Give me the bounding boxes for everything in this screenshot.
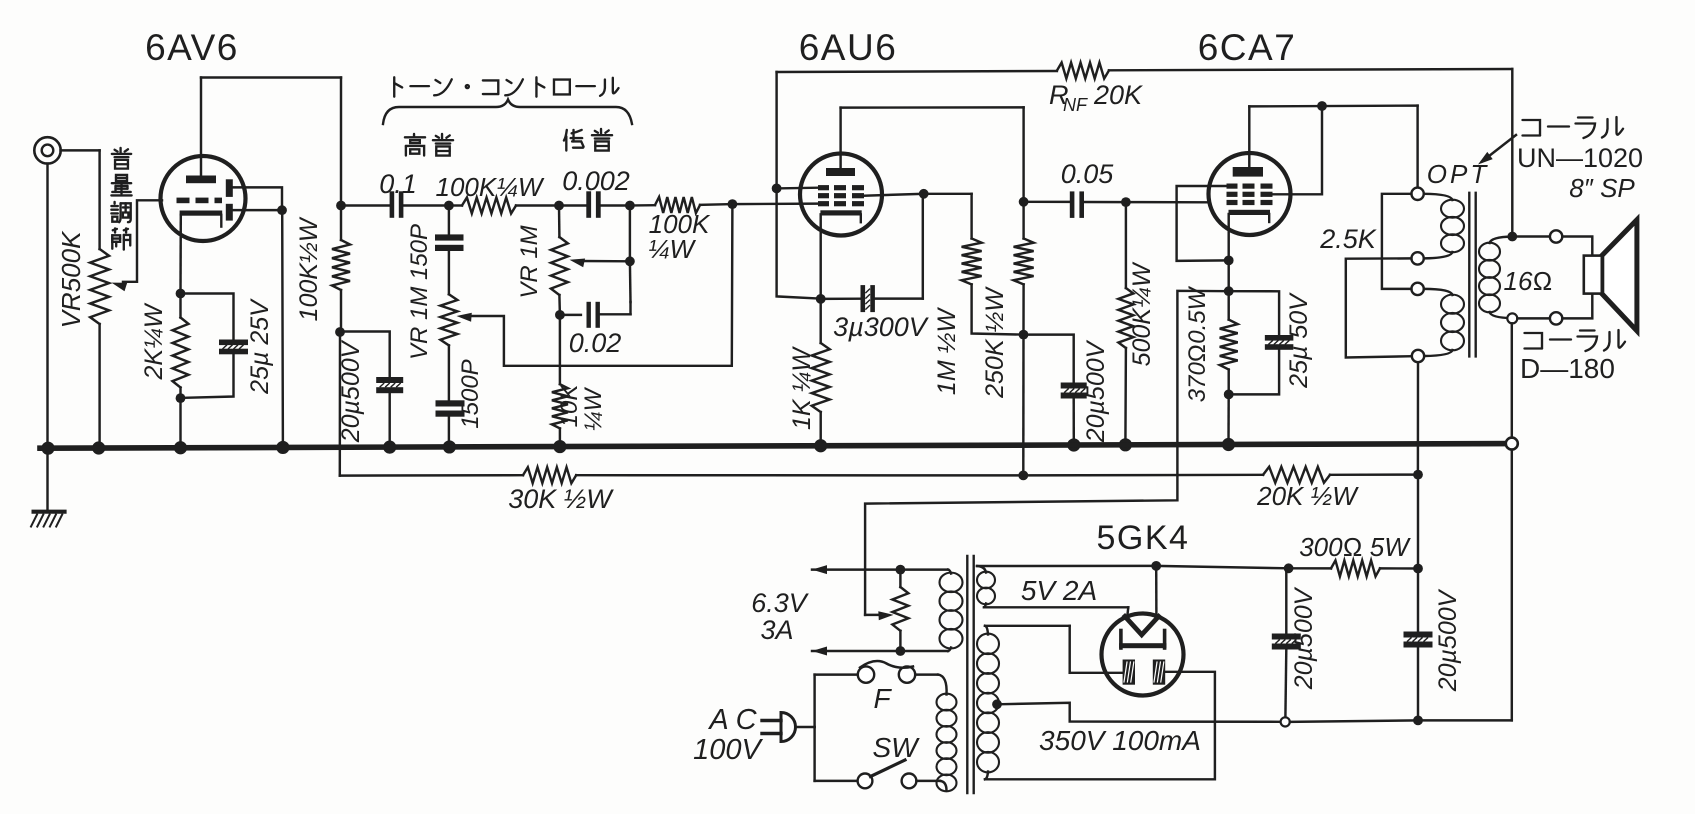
node bass pot bottom xyxy=(555,310,565,320)
V4 cathode bar xyxy=(1119,631,1166,649)
V2 cathode xyxy=(820,210,861,222)
PT primary winding xyxy=(937,694,957,792)
label 3µ300V xyxy=(833,312,930,342)
node diode junction xyxy=(277,205,287,215)
node B+ tap 6AU6 xyxy=(1018,471,1028,481)
OPT secondary coil xyxy=(1479,237,1512,319)
potentiometer VR4 hum balance xyxy=(892,570,908,651)
wire bias bottom to bus xyxy=(1227,394,1230,444)
wire V2 cathode lead xyxy=(819,214,821,299)
label 350V 100mA xyxy=(1039,725,1201,756)
wire rectifier output line xyxy=(1289,567,1331,570)
wire diode plates to ground xyxy=(232,187,282,210)
wire jumper T1-T3 xyxy=(1382,194,1412,289)
node bass pot top xyxy=(554,201,564,211)
wire plug to switch xyxy=(815,727,858,781)
wire negative return line xyxy=(1290,720,1512,722)
resistor R8 1M 1/2W screen feed xyxy=(924,194,1024,335)
wire R2 node down to B+ line xyxy=(339,332,342,476)
label UN-1020 xyxy=(1517,143,1643,173)
V1 diode plate upper xyxy=(226,179,233,197)
resistor R1 2K 1/4W xyxy=(173,294,189,399)
capacitor C10 20µ500V xyxy=(1024,335,1087,445)
node treble return xyxy=(728,199,738,209)
node cathode top xyxy=(176,289,186,299)
node center-tap junction xyxy=(1281,717,1290,726)
speaker terminal plus xyxy=(1550,230,1562,242)
wire screen jumper xyxy=(1273,106,1323,194)
wire pot bottom to bus xyxy=(98,324,100,448)
svg-text:6AU6: 6AU6 xyxy=(799,27,898,68)
svg-text:350V 100mA: 350V 100mA xyxy=(1039,725,1201,756)
OPT primary upper coil xyxy=(1424,194,1464,259)
wire join down to B+ line xyxy=(1022,335,1025,476)
wiper of VR2 treble xyxy=(457,204,733,366)
svg-text:¼W: ¼W xyxy=(648,234,697,264)
node bass wiper tie xyxy=(625,256,635,266)
node filter cap 1 top xyxy=(1284,563,1294,573)
wire V1 cathode lead xyxy=(179,215,182,294)
svg-text:370Ω0.5W: 370Ω0.5W xyxy=(1184,285,1211,402)
node hum pot bottom xyxy=(896,646,906,656)
node V2 screen xyxy=(919,189,929,199)
resistor R12 370 ohm 0.5W xyxy=(1220,291,1238,394)
node filter output xyxy=(1413,470,1423,480)
label 1500P xyxy=(457,359,484,428)
label 音量調節 volume control xyxy=(111,148,131,250)
wire V3 suppressor jumper xyxy=(1177,186,1229,261)
node C13 bottom xyxy=(1413,716,1423,726)
transformer OPT primary terminal T1 xyxy=(1411,188,1423,200)
node rectifier output xyxy=(1151,561,1161,571)
wire V2 plate top run xyxy=(841,106,1024,109)
wire 5V output line xyxy=(977,566,1289,568)
label coral bottom xyxy=(1525,330,1626,351)
node R2 bottom xyxy=(335,327,345,337)
wire grid line into V2 xyxy=(732,202,818,205)
transformer OPT primary terminal T4 xyxy=(1412,350,1424,362)
node cathode-ground on bus xyxy=(174,441,187,454)
svg-text:20µ500V: 20µ500V xyxy=(1434,588,1462,692)
label 6.3V 3A xyxy=(751,588,810,645)
svg-text:VR 1M 150P: VR 1M 150P xyxy=(406,224,433,360)
PT HV winding xyxy=(977,626,999,780)
label F xyxy=(873,683,892,714)
svg-text:100V: 100V xyxy=(693,734,763,766)
svg-text:20µ500V: 20µ500V xyxy=(1290,586,1318,690)
V1 diode plate lower xyxy=(226,204,233,221)
node after C4 xyxy=(625,201,635,211)
node jack-ground on bus xyxy=(41,442,54,455)
wiper of VR4 xyxy=(865,611,893,620)
svg-text:8″ SP: 8″ SP xyxy=(1569,173,1635,203)
label 20µ500V filter2 xyxy=(1434,588,1462,692)
svg-text:0.05: 0.05 xyxy=(1061,159,1115,189)
label 0.05 xyxy=(1061,159,1115,189)
label 6AV6 xyxy=(145,27,239,68)
capacitor C13 20µ500V filter2 xyxy=(1404,569,1433,721)
svg-text:3A: 3A xyxy=(760,615,793,645)
transformer OPT primary terminal T2 xyxy=(1411,252,1423,264)
resistor R2 100K 1/2W plate load xyxy=(332,206,350,333)
resistor R11 RNF 20K feedback xyxy=(777,63,1513,79)
switch SW1 xyxy=(858,760,917,788)
node C3-ground on bus xyxy=(383,441,396,454)
potentiometer VR500K xyxy=(90,249,109,324)
wire HV bottom to right plate xyxy=(985,672,1215,780)
V3 cathode xyxy=(1229,210,1271,222)
label 2K 1/4W xyxy=(140,302,168,380)
svg-text:5V 2A: 5V 2A xyxy=(1021,575,1097,606)
wire V2 screen lead xyxy=(864,194,924,196)
svg-text:D—180: D—180 xyxy=(1520,353,1615,384)
label 20µ500V filter1 xyxy=(1290,586,1318,690)
V3 grid rows xyxy=(1227,184,1273,206)
label OPT xyxy=(1427,159,1489,189)
wire jack tip to volume pot xyxy=(61,149,100,151)
node V3 cathode-ground on bus xyxy=(1222,438,1235,451)
capacitor C5 150P xyxy=(435,206,464,252)
svg-text:0.1: 0.1 xyxy=(379,169,417,199)
svg-text:16Ω: 16Ω xyxy=(1504,266,1553,296)
wire switch to primary xyxy=(916,781,946,791)
label 30K 1/2W xyxy=(508,484,614,514)
wire heater line upper xyxy=(812,565,951,574)
potentiometer VR2 1M treble xyxy=(440,251,457,400)
wire jumper T2-T4 xyxy=(1346,258,1412,357)
tube V2 6AU6 envelope xyxy=(800,154,882,236)
wire grid line into V3 xyxy=(1126,201,1209,204)
tube V1 6AV6 envelope xyxy=(161,156,246,241)
wire bus to chassis ground xyxy=(46,448,48,512)
svg-text:20K ½W: 20K ½W xyxy=(1256,481,1359,511)
svg-text:6AV6: 6AV6 xyxy=(145,27,239,68)
wire filter node down xyxy=(1417,475,1419,569)
label 6AU6 xyxy=(799,27,898,68)
node V1 plate output xyxy=(336,201,346,211)
node HV center tap xyxy=(992,699,1002,709)
node bias network top xyxy=(1224,286,1234,296)
V4 plate right xyxy=(1153,660,1165,685)
svg-text:2.5K: 2.5K xyxy=(1319,224,1377,254)
node OPT secondary bottom xyxy=(1507,313,1517,323)
capacitor C7 0.02 xyxy=(560,302,631,328)
node R4-ground on bus xyxy=(553,440,566,453)
svg-text:10K: 10K xyxy=(556,384,583,428)
wire V1 plate riser xyxy=(200,78,202,176)
wire hum-balance tie xyxy=(865,291,1229,615)
label 1K 1/4W xyxy=(788,346,816,430)
label VR500K xyxy=(56,230,86,328)
node pot-ground on bus xyxy=(92,441,105,454)
tube V3 6CA7 envelope xyxy=(1209,153,1291,235)
svg-text:1K ¼W: 1K ¼W xyxy=(788,346,816,430)
label SW xyxy=(872,732,920,763)
wire V2 plate riser xyxy=(839,108,841,168)
capacitor C12 20µ500V filter1 xyxy=(1272,568,1301,717)
svg-text:UN—1020: UN—1020 xyxy=(1517,143,1643,173)
resistor R5 100K 1/4W xyxy=(630,197,733,213)
svg-text:250K ½W: 250K ½W xyxy=(981,286,1009,399)
svg-text:A C: A C xyxy=(707,704,757,736)
svg-text:6.3V: 6.3V xyxy=(751,588,810,618)
node screen-feed join xyxy=(1019,330,1029,340)
svg-text:F: F xyxy=(873,683,892,714)
label 20µ500V xyxy=(337,339,365,443)
resistor R14 300 ohm 5W xyxy=(1331,560,1380,576)
label 10K 1/4W xyxy=(556,384,607,432)
label 100K 1/2W xyxy=(295,216,323,321)
resistor R3 100K 1/4W xyxy=(449,198,559,214)
wire bass network right leg xyxy=(629,206,632,303)
label 8 inch SP xyxy=(1569,173,1635,203)
label 100K 1/4W horizontal xyxy=(436,172,545,202)
label RNF 20K xyxy=(1049,80,1143,115)
svg-text:0.002: 0.002 xyxy=(562,166,630,196)
label coral top xyxy=(1523,117,1624,138)
ground bus xyxy=(40,444,1512,449)
annotation arrow to OPT xyxy=(1478,135,1516,165)
label AC 100V xyxy=(693,704,763,766)
svg-text:300Ω 5W: 300Ω 5W xyxy=(1299,532,1411,562)
resistor R13 20K 1/2W xyxy=(1263,467,1330,483)
label 6CA7 xyxy=(1198,27,1297,68)
node cathode bottom xyxy=(176,393,186,403)
node V2 cathode xyxy=(816,294,826,304)
wire heater line lower xyxy=(812,647,951,656)
wire B+ rail middle xyxy=(576,474,1023,477)
wire B+ rail right xyxy=(1023,474,1263,477)
resistor R6 30K 1/2W xyxy=(523,467,576,483)
wire 5V return to filament xyxy=(984,607,1128,618)
transformer PT core xyxy=(967,556,973,793)
speaker terminal minus xyxy=(1550,312,1562,324)
V3 plate xyxy=(1233,167,1263,177)
tube V4 5GK4 envelope xyxy=(1102,614,1184,696)
label 5GK4 xyxy=(1097,519,1190,557)
svg-text:30K ½W: 30K ½W xyxy=(508,484,614,514)
wire V3 plate riser xyxy=(1248,106,1250,167)
svg-text:100K½W: 100K½W xyxy=(295,216,323,321)
node bias network bottom xyxy=(1224,390,1234,400)
label 低音 bass xyxy=(564,129,612,151)
wire filter node up to OPT T4 xyxy=(1417,362,1420,474)
wire B+ rail xyxy=(340,474,523,477)
capacitor C6 1500P xyxy=(436,400,465,447)
wire V2 suppressor to feedback node xyxy=(777,186,818,189)
V1 cathode xyxy=(180,211,223,227)
PT heater winding 6.3V xyxy=(940,573,963,649)
node C10-ground on bus xyxy=(1067,438,1080,451)
OPT primary lower coil xyxy=(1424,289,1464,356)
label 300 ohm 5W xyxy=(1299,532,1411,562)
label VR1M 150P xyxy=(406,224,433,360)
wire plate run down xyxy=(1022,107,1024,201)
svg-text:1500P: 1500P xyxy=(457,359,484,428)
wire V1 plate top run xyxy=(201,76,341,78)
label 2.5K xyxy=(1319,224,1377,254)
wire feedback node down to cathode xyxy=(777,188,821,298)
capacitor C8 3µ300V xyxy=(821,285,923,312)
V1 plate xyxy=(186,176,216,184)
svg-text:25µ 25V: 25µ 25V xyxy=(246,298,274,395)
label 0.002 xyxy=(562,166,630,196)
speaker SP1 8 inch xyxy=(1584,220,1637,331)
wire 300 ohm to filter node xyxy=(1380,567,1418,570)
V4 plate left xyxy=(1123,660,1135,685)
wiper of VR3 bass xyxy=(570,259,630,268)
V4 filament xyxy=(1125,616,1159,634)
V2 grid rows xyxy=(818,185,864,206)
svg-text:6CA7: 6CA7 xyxy=(1198,27,1297,68)
svg-text:0.02: 0.02 xyxy=(569,328,622,358)
label 20K 1/2W xyxy=(1256,481,1359,511)
resistor R4 10K 1/4W xyxy=(552,315,568,447)
wire fuse to primary xyxy=(915,675,946,695)
wire plate run down to OPT xyxy=(1416,106,1418,188)
svg-text:VR 1M: VR 1M xyxy=(516,225,543,298)
label 25µ50V xyxy=(1285,292,1313,389)
wire secondary to speaker minus xyxy=(1517,317,1550,319)
V1 grid dashes xyxy=(177,198,223,204)
svg-text:3µ300V: 3µ300V xyxy=(833,312,930,342)
chassis ground symbol xyxy=(31,512,65,527)
label 250K 1/2W xyxy=(981,286,1009,399)
label 高音 treble xyxy=(405,134,453,156)
node bus right end xyxy=(1506,438,1518,450)
svg-text:20µ500V: 20µ500V xyxy=(1082,339,1110,443)
wiper of VR500K xyxy=(112,200,163,291)
node filter cap 2 top xyxy=(1413,564,1423,574)
wire center tap to ground line xyxy=(997,703,1281,722)
V2 plate xyxy=(826,168,855,176)
wire screen bypass riser xyxy=(922,194,924,299)
node OPT secondary top xyxy=(1507,232,1517,242)
wire 20K to filter node xyxy=(1330,473,1418,476)
svg-text:25µ 50V: 25µ 50V xyxy=(1285,292,1313,389)
fuse F1 xyxy=(858,661,915,683)
node feedback tap xyxy=(772,184,782,194)
transformer OPT primary terminal T3 xyxy=(1411,283,1423,295)
capacitor C4 0.002 xyxy=(559,191,630,218)
capacitor C9 0.05 coupling xyxy=(1024,191,1126,218)
label 0.02 xyxy=(569,328,622,358)
OPT core xyxy=(1469,193,1475,357)
node hum pot top xyxy=(896,565,906,575)
wire feedback riser xyxy=(775,72,777,188)
node diode-ground on bus xyxy=(276,441,289,454)
label 5V 2A xyxy=(1021,575,1097,606)
plug P1 AC 100V xyxy=(762,713,815,742)
node V3 cathode tie xyxy=(1224,256,1234,266)
wire top run down to coupling node xyxy=(340,78,342,206)
wire pot top xyxy=(98,150,100,249)
node C6-ground on bus xyxy=(443,440,456,453)
wire V3 plate top run xyxy=(1249,104,1417,107)
svg-text:20K: 20K xyxy=(1093,80,1143,110)
input jack J1 xyxy=(34,137,60,163)
PT 5V winding xyxy=(977,566,995,607)
resistor R9 250K 1/2W plate load xyxy=(1014,202,1034,335)
svg-text:1M ½W: 1M ½W xyxy=(933,307,961,396)
label トーン・コントロール xyxy=(394,77,618,96)
wire plug to fuse xyxy=(815,675,858,727)
svg-text:NF: NF xyxy=(1063,95,1088,115)
capacitor C1 0.1 coupling xyxy=(341,191,449,218)
label 25µ25V xyxy=(246,298,274,395)
node tone input xyxy=(444,201,454,211)
svg-text:500K¼W: 500K¼W xyxy=(1128,261,1156,366)
node R10-ground on bus xyxy=(1119,438,1132,451)
capacitor C3 20µ500V decoupling xyxy=(340,332,403,448)
node V2 plate output xyxy=(1019,197,1029,207)
wire V3 cathode lead xyxy=(1227,214,1229,260)
wire jack sleeve down to ground bus xyxy=(46,164,48,449)
capacitor C11 25µ50V xyxy=(1229,291,1294,394)
label VR1M bass xyxy=(516,225,543,298)
potentiometer VR3 1M bass xyxy=(551,206,568,315)
label 1M 1/2W xyxy=(933,307,961,396)
label 500K 1/4W xyxy=(1128,261,1156,366)
wire speaker plus lead xyxy=(1562,237,1592,256)
svg-text:SW: SW xyxy=(872,732,920,763)
node R7-ground on bus xyxy=(814,439,827,452)
node V3 grid node xyxy=(1121,197,1131,207)
wire V4 output riser xyxy=(1155,566,1158,618)
svg-text:100K¼W: 100K¼W xyxy=(436,172,545,202)
resistor R10 500K 1/4W grid leak xyxy=(1118,202,1133,445)
capacitor C2 25µ25V xyxy=(181,294,249,398)
brace tone control xyxy=(383,100,632,125)
label 0.1 xyxy=(379,169,417,199)
label D-180 xyxy=(1520,353,1615,384)
label 16 ohm xyxy=(1504,266,1553,296)
wire cathode down xyxy=(1227,260,1229,291)
svg-text:2K¼W: 2K¼W xyxy=(140,302,168,380)
svg-text:VR500K: VR500K xyxy=(56,230,86,328)
label 20µ500V mid xyxy=(1082,339,1110,443)
svg-text:5GK4: 5GK4 xyxy=(1097,519,1190,557)
node screen tap xyxy=(1317,101,1327,111)
wire cathode bottom to bus xyxy=(179,398,181,448)
label 370 ohm 0.5W xyxy=(1184,285,1211,402)
label 100K 1/4W two-line xyxy=(648,209,711,264)
wire feedback takeoff riser xyxy=(1511,69,1513,237)
svg-text:¼W: ¼W xyxy=(580,386,607,431)
resistor R7 1K 1/4W xyxy=(812,299,830,446)
svg-text:20µ500V: 20µ500V xyxy=(337,339,365,443)
wire secondary to speaker plus xyxy=(1517,235,1550,237)
wire speaker return down right edge xyxy=(1511,323,1513,720)
wire HV top to left plate xyxy=(985,626,1123,673)
wire speaker minus lead xyxy=(1562,294,1592,319)
wire diode junction down to bus xyxy=(281,210,284,447)
